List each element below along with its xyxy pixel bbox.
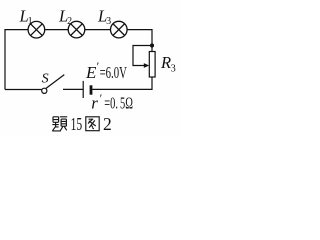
svg-text:2: 2	[67, 16, 72, 27]
svg-text:S: S	[42, 71, 49, 86]
battery short thick plate (negative)	[90, 85, 93, 94]
svg-text:3: 3	[106, 16, 111, 27]
svg-text:3: 3	[171, 64, 176, 75]
wire switch to bottom-left	[5, 89, 42, 91]
wire L3 to top-right corner down to junction	[127, 30, 152, 52]
wire left vertical + top rail start	[5, 30, 28, 90]
wire L1 to L2	[45, 29, 68, 31]
svg-text:=0. 5Ω: =0. 5Ω	[104, 94, 133, 113]
label L3	[97, 6, 111, 26]
label R3	[160, 53, 176, 74]
wiper wire loop	[133, 46, 150, 66]
lamp L2	[68, 21, 85, 38]
switch pivot circle	[42, 88, 47, 93]
caption char 题 (drawn strokes)	[52, 117, 67, 131]
caption char 图 (drawn strokes)	[86, 117, 99, 131]
wire L2 to L3	[85, 29, 111, 31]
svg-text:R: R	[160, 53, 171, 72]
junction dot	[150, 43, 154, 47]
label E'=6.0V	[85, 59, 127, 82]
label r'=0.5Ω	[91, 91, 133, 113]
wire battery to switch fixed contact	[63, 88, 83, 90]
svg-text:′: ′	[100, 91, 103, 105]
lamp L1	[28, 21, 45, 38]
lamp L3	[111, 21, 128, 38]
switch blade	[46, 75, 64, 89]
label L2	[58, 6, 72, 26]
svg-text:2: 2	[103, 114, 112, 134]
svg-text:=6.0V: =6.0V	[100, 63, 128, 82]
rheostat R3 box	[149, 52, 155, 78]
battery long thin plate (positive)	[82, 81, 84, 98]
svg-text:E: E	[85, 63, 97, 82]
svg-text:15: 15	[71, 114, 83, 134]
wiper arrowhead	[144, 63, 149, 68]
svg-text:1: 1	[28, 16, 33, 27]
wire R3 bottom to bottom rail	[92, 77, 152, 89]
svg-text:r: r	[91, 94, 98, 113]
label L1	[19, 6, 33, 26]
